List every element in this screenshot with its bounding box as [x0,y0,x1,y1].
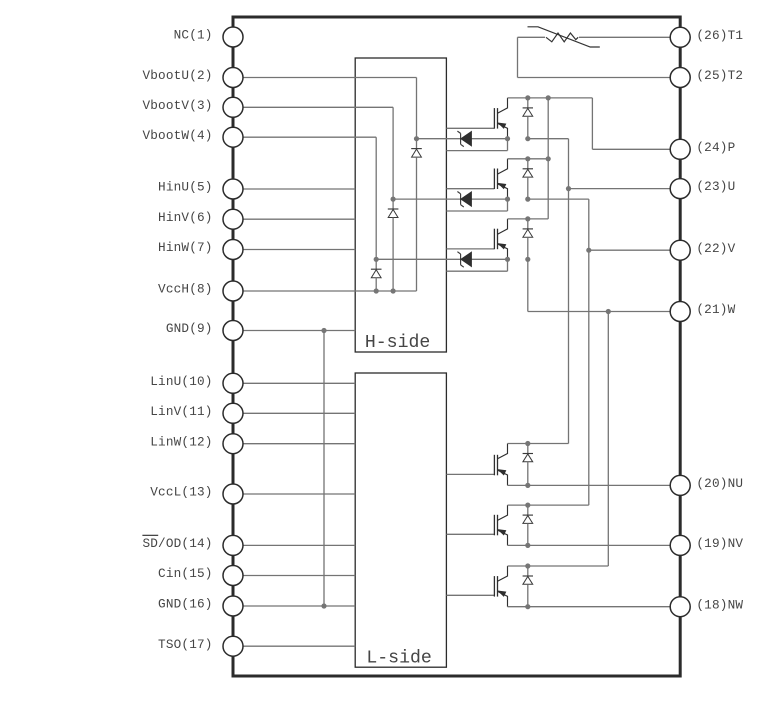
pin 13 terminal VccL(13) [223,484,243,504]
pin 15 terminal Cin(15) [223,566,243,586]
wire emitter loop row U [446,150,507,152]
overline over SD of pin 14 label [142,534,158,536]
wire NW collector rail [508,565,609,567]
pin 5 terminal HinU(5) [223,179,243,199]
wire GND(9) to H-side [233,330,355,332]
pin 16 terminal GND(16) [223,596,243,616]
wire to pin V [589,249,680,251]
svg-text:HinW(7): HinW(7) [158,240,213,255]
wire VbootV vertical [392,107,394,199]
wire Vs feedback row V (Vboot junction to emitter) [393,198,507,200]
svg-text:(20)NU: (20)NU [696,476,743,491]
package outline [233,17,680,676]
bootstrap diode D2 [392,199,394,209]
bootstrap diode D1 [416,139,418,149]
svg-text:VbootV(3): VbootV(3) [142,98,212,113]
wire LinV(11) to L-side [233,412,355,414]
wire P feed vertical [547,98,549,219]
svg-text:LinU(10): LinU(10) [150,374,212,389]
zener clamp ZD3 (W high-side) [460,254,462,265]
wire Vs feedback row W (Vboot junction to emitter) [376,258,507,260]
wire VccH(8) bus into H-side [233,290,417,292]
node DF5 cathode [525,503,530,508]
wire T1 row [518,36,681,38]
node W output [606,309,611,314]
pin 8 terminal VccH(8) [223,281,243,301]
wire TSO(17) to L-side [233,645,355,647]
wire LinW(12) to L-side [233,443,355,445]
pin 3 terminal VbootV(3) [223,97,243,117]
wire V output row [528,198,589,200]
pin 26 terminal (26)T1 [670,27,690,47]
node DF4 cathode [525,441,530,446]
freewheel diode DF3 (W high) [527,219,529,229]
pin 20 terminal (20)NU [670,475,690,495]
node emitter W-high [505,257,510,262]
svg-text:VccL(13): VccL(13) [150,485,212,500]
node VccH bus at VbootW vertical [374,288,379,293]
svg-text:LinW(12): LinW(12) [150,434,212,449]
pin 19 terminal (19)NV [670,535,690,555]
IGBT Q3 (W-phase high side) [493,229,495,250]
wire NU collector rail [508,443,569,445]
svg-text:(21)W: (21)W [696,302,735,317]
node emitter U-high [505,136,510,141]
zener clamp ZD2 (V high-side) [460,194,462,205]
node GND16 junction [321,603,326,608]
svg-text:GND(16): GND(16) [158,597,213,612]
pin 7 terminal HinW(7) [223,240,243,260]
bootstrap diode D3 [375,259,377,269]
node DF2 cathode [525,156,530,161]
svg-text:VbootU(2): VbootU(2) [142,68,212,83]
svg-text:GND(9): GND(9) [166,321,213,336]
svg-text:(22)V: (22)V [696,241,735,256]
wire to pin NU [508,484,681,486]
IGBT Q5 (V-phase low side) [493,515,495,536]
svg-text:(24)P: (24)P [696,140,735,155]
wire SD/OD(14) to L-side [233,544,355,546]
svg-text:SD/OD(14): SD/OD(14) [142,536,212,551]
pin 22 terminal (22)V [670,240,690,260]
wire GND bus vertical [323,331,325,607]
pin 11 terminal LinV(11) [223,403,243,423]
pin 23 terminal (23)U [670,179,690,199]
svg-text:HinU(5): HinU(5) [158,180,213,195]
svg-text:LinV(11): LinV(11) [150,404,212,419]
svg-text:HinV(6): HinV(6) [158,210,213,225]
svg-text:NC(1): NC(1) [174,28,213,43]
svg-text:L-side: L-side [366,649,432,669]
freewheel diode DF6 (NW) [527,566,529,576]
wire P rail corner down [591,98,593,149]
svg-text:Cin(15): Cin(15) [158,566,213,581]
freewheel diode DF5 (NV) [527,505,529,515]
wire VbootU vertical [416,78,418,139]
node DF6 cathode [525,563,530,568]
svg-text:(23)U: (23)U [696,179,735,194]
pin 21 terminal (21)W [670,302,690,322]
wire L-side gate drive NU [446,473,494,475]
wire HinV(6) to H-side [233,218,355,220]
svg-text:VccH(8): VccH(8) [158,282,213,297]
wire VbootU(2) to H-side [233,77,417,79]
IGBT Q6 (W-phase low side) [493,576,495,597]
node DF2 anode [525,197,530,202]
IGBT Q1 (U-phase high side) [493,108,495,129]
wire to pin P [592,148,680,150]
wire thermistor left leg [517,37,519,77]
thermistor RT1 diagonal [528,27,600,47]
pin 9 terminal GND(9) [223,321,243,341]
pin 4 terminal VbootW(4) [223,127,243,147]
wire W-high collector rail [508,218,549,220]
wire HinU(5) to H-side [233,188,355,190]
node DF3 anode [525,257,530,262]
svg-text:(26)T1: (26)T1 [696,28,743,43]
wire VbootW(4) to H-side [233,136,376,138]
wire W output drop [527,259,529,311]
wire Cin(15) to L-side [233,575,355,577]
node DF1 anode [525,136,530,141]
svg-text:(25)T2: (25)T2 [696,68,743,83]
pin 6 terminal HinV(6) [223,209,243,229]
wire H-side gate drive U [446,127,494,129]
wire H-side gate drive V [446,188,494,190]
wire NV collector rail [508,504,589,506]
svg-text:H-side: H-side [365,333,431,353]
pin 18 terminal (18)NW [670,597,690,617]
H-side gate driver block U1 [355,58,446,352]
wire VccL(13) to L-side [233,493,355,495]
wire U output row [528,138,569,140]
wire H-side gate drive W [446,248,494,250]
freewheel diode DF1 (U high) [527,98,529,108]
wire to pin NV [508,544,681,546]
wire V output vertical [588,199,590,505]
svg-text:TSO(17): TSO(17) [158,637,213,652]
pin 14 terminal SD/OD(14) [223,535,243,555]
node VccH bus at VbootV vertical [391,288,396,293]
svg-text:(19)NV: (19)NV [696,536,743,551]
wire emitter loop row V [446,210,507,212]
L-side gate driver block U2 [355,373,446,667]
pin 2 terminal VbootU(2) [223,68,243,88]
freewheel diode DF4 (NU) [527,444,529,454]
node U output [566,186,571,191]
wire VbootV(3) to H-side [233,106,393,108]
IGBT Q2 (V-phase high side) [493,169,495,190]
wire L-side gate drive NV [446,533,494,535]
pin 1 terminal NC(1) [223,27,243,47]
wire W output vertical [607,312,609,567]
node V output [586,248,591,253]
pin 25 terminal (25)T2 [670,68,690,88]
wire L-side gate drive NW [446,594,494,596]
wire P rail (U-high collector) [508,97,593,99]
node DF5 anode [525,543,530,548]
node DF3 cathode [525,216,530,221]
freewheel diode DF2 (V high) [527,159,529,169]
node DF1 cathode [525,95,530,100]
wire to pin NW [508,606,681,608]
pin 12 terminal LinW(12) [223,434,243,454]
node DF6 anode [525,604,530,609]
zener clamp ZD1 (U high-side) [460,133,462,144]
node VbootV / Vs junction [391,197,396,202]
wire HinW(7) to H-side [233,249,355,251]
thermistor RT1 zigzag [546,33,578,42]
node emitter V-high [505,197,510,202]
wire U output vertical [568,139,570,444]
svg-text:VbootW(4): VbootW(4) [142,128,212,143]
wire Vs feedback row U (Vboot junction to emitter) [417,138,508,140]
wire to pin U [569,188,681,190]
wire T2 row [518,77,681,79]
pin 10 terminal LinU(10) [223,373,243,393]
node P rail / P-feed tap [546,95,551,100]
node VbootU / Vs junction [414,136,419,141]
wire to pin W [528,311,680,313]
node P feed at V collector [546,156,551,161]
wire V-high collector rail [508,158,549,160]
wire GND(16) to L-side [233,605,355,607]
IGBT Q4 (U-phase low side) [493,455,495,476]
pin 17 terminal TSO(17) [223,636,243,656]
node VbootW / Vs junction [374,257,379,262]
wire LinU(10) to L-side [233,382,355,384]
pin 24 terminal (24)P [670,139,690,159]
wire VbootW vertical [375,137,377,259]
node GND9 junction [321,328,326,333]
wire emitter loop row W [446,270,507,272]
node DF4 anode [525,483,530,488]
svg-text:(18)NW: (18)NW [696,597,743,612]
